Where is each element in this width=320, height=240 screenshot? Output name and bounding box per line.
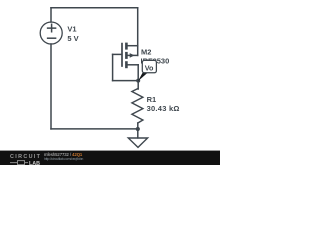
- transistor M2 drain stub: [128, 45, 138, 47]
- footer logo CIRCUITLAB: [10, 154, 41, 160]
- wire bottom rail to ground node: [51, 128, 138, 130]
- transistor M2 channel dash source: [125, 63, 128, 67]
- footer bar: [0, 150, 220, 165]
- voltage source V1 circle: [40, 22, 62, 44]
- wire top horizontal V1 to M2 drain: [51, 7, 138, 9]
- svg-text:30.43 kΩ: 30.43 kΩ: [147, 104, 180, 113]
- transistor M2 gate bar: [121, 44, 123, 66]
- transistor M2 channel dash drain: [125, 44, 128, 48]
- probe Vo callout tail: [138, 73, 148, 82]
- transistor M2 channel dash body: [125, 53, 128, 57]
- transistor M2 source stub: [128, 64, 139, 66]
- V1 plus sign: [48, 24, 56, 32]
- probe Vo callout bubble: [142, 60, 156, 72]
- svg-text:R1: R1: [147, 95, 157, 104]
- transistor M2 body arrow: [130, 53, 135, 58]
- wire V1 minus terminal down to bottom rail: [50, 44, 52, 129]
- wire left vertical top wire to V1 plus terminal: [50, 8, 52, 22]
- wire M2 source down to node and R1: [137, 65, 139, 89]
- svg-text:M2: M2: [141, 47, 151, 56]
- transistor M2 body stub: [128, 54, 138, 56]
- V1 minus sign: [48, 37, 56, 39]
- wire R1 bottom to ground: [137, 123, 139, 138]
- footer url: [44, 157, 83, 161]
- svg-text:LAB: LAB: [29, 161, 40, 165]
- svg-text:Vo: Vo: [145, 63, 154, 72]
- wire right vertical top to MOSFET: [137, 8, 139, 56]
- svg-text:5 V: 5 V: [67, 34, 78, 43]
- transistor M2 gate lead: [113, 53, 122, 55]
- wire gate loop vertical: [112, 54, 114, 80]
- svg-text:V1: V1: [67, 25, 76, 34]
- wire gate loop bottom to output node: [113, 80, 139, 82]
- resistor R1 zigzag: [132, 89, 143, 123]
- node junction dot output: [136, 79, 140, 83]
- ground symbol triangle: [128, 138, 147, 147]
- node junction dot ground: [136, 127, 140, 131]
- footer user and circuit name: [44, 152, 82, 157]
